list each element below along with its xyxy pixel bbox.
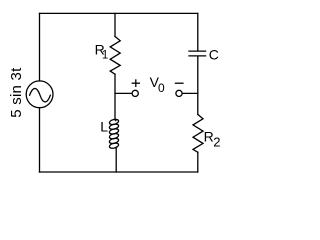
wire right bottom: [197, 152, 199, 172]
wire middle bottom: [115, 147, 117, 172]
wire right top: [197, 13, 199, 50]
svg-text:1: 1: [102, 50, 108, 62]
wire stub to + terminal: [115, 92, 132, 94]
svg-text:0: 0: [158, 81, 165, 95]
resistor R2: [193, 114, 203, 152]
wire top: [40, 12, 198, 14]
capacitor C: [189, 51, 206, 56]
wire stub to - terminal: [182, 92, 198, 94]
wire left top: [39, 13, 41, 81]
svg-text:5 sin 3t: 5 sin 3t: [8, 67, 25, 118]
wire bottom: [40, 171, 198, 173]
svg-text:L: L: [100, 119, 108, 135]
svg-text:2: 2: [213, 135, 220, 150]
resistor R1: [110, 36, 120, 74]
node V0 - terminal: [176, 90, 182, 96]
label minus sign: [175, 82, 184, 84]
voltage source VS (5 sin 3t): [26, 81, 53, 108]
svg-text:C: C: [209, 46, 219, 62]
wire left bottom: [39, 108, 41, 172]
node V0 + terminal: [132, 90, 138, 96]
inductor L: [109, 118, 119, 149]
wire middle top: [114, 13, 116, 36]
wire middle mid: [114, 74, 116, 120]
label plus sign: [132, 79, 140, 87]
wire right mid: [197, 56, 199, 114]
